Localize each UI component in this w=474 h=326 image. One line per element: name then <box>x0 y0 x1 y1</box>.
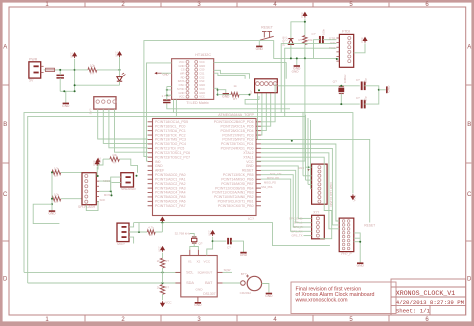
svg-text:www.xronosclock.com: www.xronosclock.com <box>296 298 349 304</box>
svg-text:IN0: IN0 <box>155 160 160 164</box>
svg-text:32.768 kHz: 32.768 kHz <box>175 231 191 235</box>
wire diode top <box>291 22 305 39</box>
fuse F1 <box>46 68 55 71</box>
wire resistor to rail <box>304 45 306 59</box>
wire R1 right to LED <box>97 69 120 71</box>
wire fuse to node <box>55 69 75 71</box>
svg-text:GPS_TX: GPS_TX <box>291 234 302 238</box>
svg-text:10k: 10k <box>54 166 59 170</box>
wire j2 mid up <box>138 223 140 232</box>
junction mic vcc <box>161 222 163 224</box>
svg-text:A: A <box>3 45 7 51</box>
wire rail left resistors <box>51 172 53 204</box>
wire j2 pin3 <box>129 237 134 243</box>
svg-text:XRONOS_CLOCK_V1: XRONOS_CLOCK_V1 <box>396 290 455 297</box>
wire lm to resistor <box>218 94 232 96</box>
svg-text:GND: GND <box>292 70 300 74</box>
ground symbol xtal rotated <box>386 86 388 93</box>
wire ledmatrix top run <box>214 63 287 79</box>
VCC arrow pullups <box>162 248 164 252</box>
VCC arrow flash <box>96 162 98 166</box>
wire xtal1 <box>249 103 360 105</box>
svg-text:VCC: VCC <box>199 60 205 64</box>
wire SCL horizontal to RTC <box>24 271 181 273</box>
junction lm a <box>217 89 219 91</box>
ground symbol PH <box>357 262 363 264</box>
svg-text:RESET: RESET <box>242 169 254 173</box>
wire q2 x2 <box>194 247 198 250</box>
connector J2 box <box>117 223 129 242</box>
svg-text:VCC: VCC <box>92 160 96 166</box>
svg-text:MISO_PD: MISO_PD <box>264 181 276 185</box>
LED D2 <box>117 77 122 81</box>
VCC down arrow pullup <box>162 301 164 305</box>
svg-text:PCINT5/ADC5_PA5: PCINT5/ADC5_PA5 <box>155 195 186 199</box>
LED matrix driver U1 pin pads <box>186 60 189 63</box>
svg-text:PCINT30/OC2B/ICP_PD6: PCINT30/OC2B/ICP_PD6 <box>214 120 254 124</box>
wire VCC to rail <box>74 59 76 92</box>
svg-text:MIC?: MIC? <box>117 242 125 246</box>
wire xtal2 <box>277 85 360 87</box>
svg-text:R?: R? <box>149 233 153 237</box>
wire X3 pins <box>304 217 312 219</box>
svg-text:GND: GND <box>199 64 205 68</box>
LED matrix driver U1 box <box>172 59 214 100</box>
wire cap C4 left <box>314 40 320 59</box>
svg-text:SQW: SQW <box>224 268 231 272</box>
battery B1 <box>247 276 261 290</box>
svg-text:BAT: BAT <box>205 281 213 285</box>
svg-text:OSC: OSC <box>179 83 185 87</box>
svg-text:VCC: VCC <box>165 301 172 305</box>
svg-text:RESET: RESET <box>261 26 274 30</box>
battery holder contact <box>241 281 246 286</box>
wire staircase MCU to buttons header <box>261 93 275 122</box>
svg-text:C?: C? <box>356 96 360 100</box>
RTC IC2 box <box>181 256 217 297</box>
svg-text:CS0: CS0 <box>199 68 205 72</box>
svg-text:5V: 5V <box>29 79 34 83</box>
svg-text:PCINT2/ADC2_PA2: PCINT2/ADC2_PA2 <box>155 182 186 186</box>
speaker connector box <box>121 173 134 187</box>
svg-text:DATA: DATA <box>178 79 185 83</box>
junction gnd rail b <box>74 90 76 92</box>
svg-text:Sheet: 1/1: Sheet: 1/1 <box>396 307 431 314</box>
svg-text:PCINT9/CLKO/T1_PB1: PCINT9/CLKO/T1_PB1 <box>218 200 254 204</box>
svg-text:AREF: AREF <box>155 169 164 173</box>
wire header SV2 to MCU <box>98 109 148 139</box>
svg-text:PCINT13/SCK_PB5: PCINT13/SCK_PB5 <box>223 173 254 177</box>
buttons header S2 box <box>255 79 278 93</box>
wire ftdi rx <box>281 44 336 113</box>
junction gnd rail a <box>63 90 65 92</box>
wire verticals to X2 <box>302 112 304 176</box>
svg-text:1N4148: 1N4148 <box>282 36 286 46</box>
svg-text:PCINT23/TOSC2_PC7: PCINT23/TOSC2_PC7 <box>155 155 190 159</box>
svg-text:SCK: SCK <box>100 198 106 202</box>
resistor R9 2k <box>160 285 164 295</box>
resistor R5 10k <box>52 197 61 201</box>
wire ftdi tx <box>285 48 337 116</box>
svg-text:GND: GND <box>256 47 264 51</box>
svg-text:PCINT19/TMS_PC3: PCINT19/TMS_PC3 <box>155 138 186 142</box>
svg-text:R?: R? <box>90 71 94 75</box>
svg-text:PCINT18/OC1A_PD5: PCINT18/OC1A_PD5 <box>155 120 188 124</box>
svg-text:R?: R? <box>233 97 237 101</box>
wire PH right <box>354 233 360 263</box>
crystal Q2 32k <box>192 236 197 238</box>
ground symbol power input <box>63 102 69 104</box>
header X2 rgb box <box>312 164 328 204</box>
wire bat pin <box>223 282 241 284</box>
junction r5 <box>51 198 53 200</box>
svg-text:4/20/2013 8:27:39 PM: 4/20/2013 8:27:39 PM <box>396 299 465 306</box>
svg-text:PCINT25/TXD1_PD1: PCINT25/TXD1_PD1 <box>221 142 254 146</box>
junction vcc rtc <box>212 240 214 242</box>
VCC arrow mic <box>161 219 163 223</box>
svg-text:VCC: VCC <box>353 194 357 201</box>
capacitor C7 <box>227 238 229 245</box>
svg-text:A: A <box>467 45 471 51</box>
svg-text:VCC: VCC <box>179 60 185 64</box>
wire rail A <box>167 103 290 109</box>
svg-text:RESET: RESET <box>364 223 375 227</box>
junction power node <box>74 69 76 71</box>
svg-text:SCK_CSL: SCK_CSL <box>270 172 283 176</box>
capacitor C5 <box>361 82 363 91</box>
wire cap C2 top <box>59 70 61 75</box>
svg-text:PCINT8/XCK0/T0_PB0: PCINT8/XCK0/T0_PB0 <box>218 204 254 208</box>
wire flash mosi <box>99 191 112 195</box>
VCC arrow mid <box>97 160 99 164</box>
wire lm left gnd arrow <box>162 72 172 74</box>
junction flash a <box>110 190 112 192</box>
svg-text:10k: 10k <box>308 38 313 42</box>
svg-text:CR2032: CR2032 <box>240 291 252 295</box>
junction diode bottom <box>290 57 292 59</box>
svg-text:D: D <box>467 277 472 283</box>
svg-text:D: D <box>3 277 8 283</box>
svg-text:PH?_P: PH?_P <box>341 252 351 256</box>
svg-text:PCINT14/MISO_PB6: PCINT14/MISO_PB6 <box>221 177 253 181</box>
svg-text:Q?: Q? <box>333 79 337 83</box>
buttons header S2 pads <box>256 82 260 86</box>
svg-text:GND: GND <box>48 212 56 216</box>
svg-text:16MHz: 16MHz <box>343 74 347 83</box>
junction j2 mid <box>138 231 140 233</box>
wire cap c7 right <box>231 241 244 252</box>
svg-text:X2: X2 <box>196 259 200 263</box>
svg-text:R?: R? <box>165 259 169 263</box>
junction lm left b <box>166 94 168 96</box>
svg-text:SYNC: SYNC <box>177 87 185 91</box>
svg-text:PCINT10/INT2/AIN0_PB2: PCINT10/INT2/AIN0_PB2 <box>214 195 254 199</box>
resistor R3 1k <box>231 92 239 96</box>
svg-text:R?: R? <box>55 174 59 178</box>
svg-text:2k: 2k <box>157 285 161 289</box>
junction gnd left <box>51 203 53 205</box>
wire bottom mid run <box>134 223 330 246</box>
svg-text:PCINT4/ADC4_PA4: PCINT4/ADC4_PA4 <box>155 191 186 195</box>
wire r6 right <box>119 159 137 173</box>
svg-text:R?: R? <box>55 200 59 204</box>
svg-text:PCINT26/INT0_PD2: PCINT26/INT0_PD2 <box>222 138 253 142</box>
svg-text:PCINT16/SCL_PC0: PCINT16/SCL_PC0 <box>155 124 185 128</box>
svg-text:C?: C? <box>312 32 316 36</box>
svg-text:PCINT27/INT1_PD3: PCINT27/INT1_PD3 <box>222 133 253 137</box>
wire ftdi long run top <box>144 41 274 157</box>
junction mcu bundle <box>291 140 293 142</box>
svg-text:MOSI_PD: MOSI_PD <box>267 176 279 180</box>
svg-text:VCC: VCC <box>70 52 74 58</box>
svg-text:VCC: VCC <box>115 51 119 57</box>
wire lm left upper2 <box>167 86 172 88</box>
svg-text:PCINT18/TCK_PC2: PCINT18/TCK_PC2 <box>155 133 186 137</box>
wire resistor R3 right <box>239 94 250 96</box>
wire diode bottom <box>290 45 292 59</box>
wire vcc flash <box>96 167 98 176</box>
wire reset vertical to MCU <box>256 58 305 161</box>
VCC arrow ftdi <box>364 39 366 43</box>
ground rail wire <box>60 90 74 92</box>
svg-text:RD: RD <box>181 75 185 79</box>
wire cap C4 right <box>323 39 337 41</box>
svg-text:CS1: CS1 <box>199 71 205 75</box>
svg-text:X1: X1 <box>188 259 192 263</box>
wire r9 bottom <box>162 294 164 300</box>
svg-text:B: B <box>3 122 7 128</box>
VCC arrow rtc <box>212 232 214 236</box>
FTDI pin stubs <box>336 37 339 39</box>
junction flash top <box>97 175 99 177</box>
flash header pads <box>85 174 88 177</box>
header X2 gnd mark <box>305 166 312 168</box>
svg-text:VCC: VCC <box>360 37 364 43</box>
svg-text:SPEAKER: SPEAKER <box>121 187 136 191</box>
junction r3 <box>249 94 251 96</box>
resistor R6 10k mid <box>110 157 120 161</box>
wire pullup mid <box>162 272 164 283</box>
svg-text:PCINT28/OC1B_PD4: PCINT28/OC1B_PD4 <box>220 129 253 133</box>
svg-text:CS3: CS3 <box>199 79 205 83</box>
svg-text:GND: GND <box>155 164 163 168</box>
svg-text:PCINT17/SDA_PC1: PCINT17/SDA_PC1 <box>155 129 186 133</box>
svg-text:C: C <box>3 192 8 198</box>
svg-text:VCC: VCC <box>300 12 304 18</box>
svg-text:C?: C? <box>227 246 231 250</box>
junction speaker <box>136 175 138 177</box>
svg-text:4.7k: 4.7k <box>148 226 154 230</box>
svg-text:MOSI: MOSI <box>104 193 111 197</box>
capacitor C4 dtr <box>319 36 321 44</box>
svg-text:10k: 10k <box>54 193 59 197</box>
svg-text:GND: GND <box>62 104 70 108</box>
wire X2 pins <box>303 175 312 177</box>
svg-text:GND: GND <box>246 164 254 168</box>
resistor R1 10k <box>88 68 97 72</box>
wire LED bottom <box>119 81 121 85</box>
svg-text:SV?: SV? <box>88 108 92 114</box>
wire j2 pin2 <box>129 231 147 233</box>
wire r7 right <box>155 231 162 233</box>
battery B1 plus <box>246 275 249 278</box>
svg-text:1 TOP: 1 TOP <box>162 94 171 98</box>
svg-text:PCINT21/TDI_PC5: PCINT21/TDI_PC5 <box>155 147 184 151</box>
ground symbol switch <box>256 45 262 47</box>
wire vcc mid <box>97 165 99 170</box>
header SV2 pads <box>96 100 99 103</box>
header X3 pads <box>316 217 319 220</box>
svg-text:VCC: VCC <box>199 87 205 91</box>
title block table <box>391 279 466 315</box>
wire MCU to PH bundle <box>261 144 339 221</box>
svg-text:GND: GND <box>179 64 185 68</box>
svg-text:IC?: IC? <box>248 217 254 221</box>
header SV2 box <box>94 97 116 109</box>
wire vcc ftdi <box>354 43 365 52</box>
svg-text:CS2: CS2 <box>199 75 205 79</box>
ground symbol battery <box>266 293 272 295</box>
svg-text:GND: GND <box>387 85 391 93</box>
VCC arrow reset <box>304 14 306 18</box>
svg-text:B: B <box>467 122 471 128</box>
wire lm left b <box>167 94 172 96</box>
ground symbol left <box>49 210 55 212</box>
resistor R4 10k <box>52 170 61 174</box>
VCC down arrow right rail <box>352 194 354 198</box>
junction reset rail <box>304 57 306 59</box>
header PH pads <box>342 220 345 223</box>
svg-text:CS: CS <box>181 68 185 72</box>
junction SDA rtc <box>162 282 164 284</box>
svg-text:DS1307: DS1307 <box>203 292 215 296</box>
svg-text:SQW/OUT: SQW/OUT <box>197 270 212 274</box>
svg-text:PCINT1/ADC1_PA1: PCINT1/ADC1_PA1 <box>155 177 186 181</box>
svg-text:DTR: DTR <box>329 37 336 41</box>
microcontroller IC1 pin stubs <box>148 121 153 123</box>
junction cap C2 top <box>59 69 61 71</box>
wire switch left to gnd <box>258 40 260 46</box>
junction SCL rtc <box>162 271 164 273</box>
svg-text:GND: GND <box>265 294 273 298</box>
wire xtal join <box>364 86 378 104</box>
svg-text:1k: 1k <box>233 84 237 88</box>
junction lm left a <box>166 89 168 91</box>
wire MCU to X3 bundle <box>261 166 304 219</box>
svg-text:SS2_PDL: SS2_PDL <box>261 185 273 189</box>
svg-text:PCINT3/ADC3_PA3: PCINT3/ADC3_PA3 <box>155 186 186 190</box>
crystal Q1 <box>338 88 344 93</box>
junction flash b <box>111 194 113 196</box>
wire flash miso <box>99 181 111 191</box>
svg-text:10k: 10k <box>112 153 117 157</box>
svg-text:GND: GND <box>240 253 248 257</box>
resistor R2 10k vertical <box>303 36 307 45</box>
svg-text:PCINT6/ADC6_PA6: PCINT6/ADC6_PA6 <box>155 200 186 204</box>
svg-text:X??: X?? <box>313 211 319 215</box>
resistor R7 4.7k <box>147 230 155 234</box>
svg-text:R?: R? <box>113 161 117 165</box>
svg-text:PWR: PWR <box>29 57 38 61</box>
svg-text:22p: 22p <box>364 96 368 101</box>
junction gnd reset rail <box>296 57 298 59</box>
wire SDA horizontal to RTC <box>28 282 181 284</box>
junction lm b <box>217 94 219 96</box>
FTDI header pads <box>348 36 351 39</box>
wire gnd loop <box>33 204 59 223</box>
wire r6 left <box>103 158 110 160</box>
wire vcc rtc <box>207 237 213 256</box>
junction crystal top <box>340 85 342 87</box>
wire speaker a <box>111 177 121 191</box>
wire q2 x1 <box>190 243 194 250</box>
flash header stubs <box>96 175 99 177</box>
svg-text:R?: R? <box>298 38 302 42</box>
wire reset to right <box>261 139 370 222</box>
svg-text:C?: C? <box>356 78 360 82</box>
junction buttons header <box>258 89 260 91</box>
wire switch right down <box>274 40 320 58</box>
svg-text:10k: 10k <box>90 64 96 68</box>
svg-text:PCINT11/OC0A/AIN1_PB3: PCINT11/OC0A/AIN1_PB3 <box>212 191 253 195</box>
svg-text:VCC: VCC <box>246 160 254 164</box>
frame tick marks <box>84 3 86 7</box>
svg-text:Q?: Q? <box>199 242 203 246</box>
wire SDA rail <box>28 116 305 283</box>
svg-text:WR: WR <box>180 71 185 75</box>
wire vcc to resistor <box>304 18 306 35</box>
sheet frame outer bands <box>0 0 474 3</box>
diode D1 <box>288 39 293 45</box>
svg-text:GND: GND <box>357 264 365 268</box>
svg-text:VCC: VCC <box>204 259 211 263</box>
wire r5 right <box>61 198 82 200</box>
header X3 box <box>312 215 325 239</box>
wire to gnd left <box>51 204 53 210</box>
svg-text:SCL: SCL <box>186 271 193 275</box>
svg-text:C: C <box>467 192 472 198</box>
svg-text:SDA: SDA <box>186 281 194 285</box>
speaker connector pins <box>126 176 131 178</box>
wire sqw <box>223 271 232 273</box>
junction r4 <box>51 171 53 173</box>
FTDI header box <box>339 34 353 67</box>
svg-text:XTAL2: XTAL2 <box>243 151 253 155</box>
svg-text:PCINT0/ADC0_PA0: PCINT0/ADC0_PA0 <box>155 173 186 177</box>
power connector X1 pins <box>34 65 39 67</box>
wire battery right <box>262 284 269 293</box>
wire flash down <box>86 201 99 210</box>
svg-text:PCINT12/OC0B/SS_PB4: PCINT12/OC0B/SS_PB4 <box>215 186 253 190</box>
header X2 pads <box>318 166 321 169</box>
header PH box <box>339 218 354 252</box>
ground symbol lm <box>223 93 229 95</box>
wire lm vcc row left <box>147 63 172 161</box>
switch S1 reset <box>263 32 265 38</box>
VCC arrow near power input <box>74 54 76 58</box>
wire R1 left <box>75 69 88 71</box>
wire rail to ftdi junction <box>320 57 337 59</box>
junction vcc reset <box>304 21 306 23</box>
wire lm right gnd <box>214 88 218 94</box>
svg-text:2k: 2k <box>157 259 161 263</box>
wire ledmatrix r2 <box>214 70 250 79</box>
ground symbol reset rail <box>296 58 298 65</box>
VCC arrow above LED <box>119 53 121 57</box>
microcontroller IC1 box <box>153 119 257 216</box>
wire j2 pin1 <box>129 223 134 227</box>
svg-text:GND: GND <box>179 91 185 95</box>
